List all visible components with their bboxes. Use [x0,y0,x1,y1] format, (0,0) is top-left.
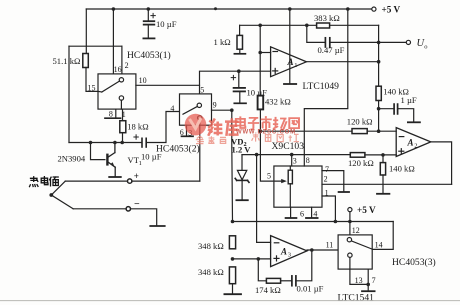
capacitor C1 10uF lead top [147,9,149,21]
transistor VT1 2N3904 [107,143,115,177]
svg-text:2N3904: 2N3904 [58,154,86,164]
wire pin7 U4 to ground [367,269,369,291]
svg-text:1 µF: 1 µF [401,95,417,105]
svg-text:15: 15 [88,83,96,92]
label thermocouple (drawn glyphs: re dian ou) [30,177,59,187]
svg-text:X9C103: X9C103 [272,141,305,152]
wire feedback top y25 [240,24,379,26]
svg-text:5: 5 [200,85,204,94]
wire U1 lower contact to pin1 [120,100,122,109]
wire left rail down from corner [85,9,87,53]
terminal +5V bottom [348,208,352,212]
node 1uF tap [377,107,381,111]
capacitor C1 10uF plates [144,21,155,24]
svg-text:348 kΩ: 348 kΩ [198,267,224,277]
svg-text:3: 3 [288,251,291,258]
wiper arrow pin5 [260,155,283,182]
svg-text:4: 4 [170,104,174,113]
node collector drop [113,141,117,145]
svg-text:51.1 kΩ: 51.1 kΩ [53,56,81,66]
resistor R 348k bottom [229,267,235,284]
wire pin1 to 18k [122,109,124,121]
terminal minus [126,207,130,211]
wire A1 power column [289,9,291,84]
node 0.47uF tap [305,24,309,28]
svg-text:383 kΩ: 383 kΩ [314,13,340,23]
resistor R 432k [258,96,264,110]
zener diode VD2 lead top [241,155,243,171]
wire 140k bottom to ground [382,175,384,193]
wire U2 lower contact down to thermocouple plus [199,120,201,181]
node A3 out [310,248,314,252]
watermark weiku text (wei ku drawn) [208,118,239,136]
wire pin2 horizontal y46 [69,45,122,47]
wire A3 minus column [257,155,271,243]
switch U4 upper contact [347,238,351,242]
wire +5V to pin12 [349,212,351,235]
wire U2 pin9 [212,109,232,111]
svg-text:7: 7 [372,276,376,285]
wire mid row y154 zener to 120k bottom [242,154,350,156]
pin 6 stub [290,207,292,217]
wire cap to A3 out [296,250,312,281]
op-amp A1 [271,47,307,77]
zener VD2 lead bottom [241,180,243,199]
ground bar pin8 U1 [105,117,121,119]
wire pin8 stub [115,109,117,118]
A3 feedback drop [258,259,266,281]
node rail-x148 [147,7,151,11]
wire minus to ground [131,209,157,226]
node A2 minus junction [377,129,381,133]
node divider mid [231,257,235,261]
wire +5V row y221 [233,221,394,223]
wire base path [91,143,105,160]
svg-text:432 kΩ: 432 kΩ [265,97,291,107]
pin 1 wire [322,196,335,222]
capacitor C5 plates [394,104,398,114]
wire pin14 loop [372,222,393,250]
svg-text:12: 12 [352,226,360,235]
svg-text:10: 10 [139,76,147,85]
op-amp A3 [271,236,307,267]
wire +5V top rail [86,8,371,10]
capacitor C1 lead bottom [147,25,149,39]
IC U3 X9C103 box [274,166,322,207]
node pin1 column [334,220,338,224]
svg-text:+5 V: +5 V [357,205,376,215]
svg-text:6: 6 [300,209,304,218]
pin 3 stub [291,155,293,166]
wire 1k drop [239,25,241,35]
wire 140k bottom [378,101,380,132]
svg-text:+: + [134,171,139,181]
wire U2 pin5 up and to A1+ [200,71,271,94]
svg-text:18 kΩ: 18 kΩ [127,122,148,132]
node pin9 junction [230,108,234,112]
svg-text:4: 4 [313,209,317,218]
wire left outer column x69 [68,46,70,142]
wire A1 output [306,61,378,63]
IC U1 HC4053(1) box [98,74,136,109]
terminal Uo [406,40,410,44]
node pin12 column [348,220,352,224]
IC U2 HC4053(2) box [180,94,212,125]
resistor R 120k top [352,129,367,134]
ground bar 140k [377,193,389,195]
svg-text:A: A [280,246,287,256]
node A3 plus feedback tap [257,257,261,261]
node Uo junction [377,41,381,45]
wire C4 to Uo node [330,41,407,43]
svg-text:LTC1541: LTC1541 [338,293,375,304]
thermal contact bar under VT1 emitter [109,176,121,178]
ground bar 1k [234,53,245,55]
node 120k tap [259,129,263,133]
wire 18k bottom [122,133,124,143]
capacitor C5 1uF branch [379,108,394,110]
svg-text:LTC1049: LTC1049 [303,81,340,92]
zener VD2 symbol [237,170,246,179]
resistor R 383k [317,23,330,28]
thermocouple junction [49,193,53,197]
wire 120k bottom to A2 plus [365,154,396,156]
terminal plus [128,179,132,183]
switch U2 lower contact [198,116,202,120]
wire +5V drop to X9C103 pin8 [304,9,348,166]
wire C5 to ground [398,109,414,122]
capacitor C2 plus [231,75,235,79]
wire A3 plus row [233,258,271,260]
svg-text:2: 2 [125,61,129,70]
switch U1 lower contact [119,96,123,100]
ground bar C5 [408,121,420,123]
wire 51.1k bottom to pin15 [86,68,98,92]
svg-text:7: 7 [325,165,329,174]
A3 minus marker [274,242,279,244]
ground bar pin6 [286,217,297,219]
wire collector node y142 [69,142,142,144]
wire 1k bottom [239,49,241,53]
ground bar A1 [284,83,296,85]
ground bar pin4 [306,217,318,219]
ground bar 348k [224,293,241,295]
svg-text:14: 14 [375,240,383,249]
svg-text:0.01 µF: 0.01 µF [297,284,324,294]
node base drop [89,141,93,145]
wire pin15 stub inside [98,90,102,93]
ground bar C2 [234,102,246,104]
node pin13-7 [366,283,370,287]
node rail-x348 [346,7,350,11]
wire pin2 vertical [121,46,123,74]
svg-text:o: o [424,44,427,51]
svg-text:348 kΩ: 348 kΩ [198,241,224,251]
svg-text:A: A [407,137,414,147]
IC U4 HC4053(3) box [338,235,372,269]
svg-text:8: 8 [109,110,113,119]
resistor R 174k [266,278,280,283]
node feedback x260 [258,24,262,28]
resistor R 1k [237,35,243,49]
svg-text:0.47 µF: 0.47 µF [318,45,345,55]
capacitor C2 lead bottom [239,91,241,103]
node A1 out [377,60,381,64]
node 140k bottom tap [381,153,385,157]
wire A1 minus column [259,25,261,95]
svg-text:2: 2 [414,142,417,149]
wire thermocouple plus [65,180,127,182]
pin 2 wire from A2 output [322,183,452,185]
wire A1 minus input [260,52,270,54]
svg-text:HC4053(1): HC4053(1) [127,50,171,61]
svg-text:174 kΩ: 174 kΩ [255,285,281,295]
svg-text:13: 13 [355,276,363,285]
svg-text:120 kΩ: 120 kΩ [348,158,374,168]
wire feedback right column [378,25,380,86]
node 18k-collector [120,141,124,145]
wire 348k to ground [232,284,234,294]
resistor R 51.1k [83,54,89,68]
wire 120k to A2 minus [367,130,396,132]
switch U4 arm [351,241,371,249]
switch U4 lower contact [348,253,352,257]
ground bar pin7 [339,191,349,193]
scan artifact line bottom [0,300,460,302]
svg-text:140 kΩ: 140 kΩ [389,163,415,173]
svg-text:9: 9 [213,101,217,110]
svg-text:3: 3 [293,157,297,166]
svg-text:120 kΩ: 120 kΩ [347,117,373,127]
capacitor C2 10uF lead [238,71,240,87]
ground bar VD2 [236,199,247,201]
svg-text:16: 16 [114,65,122,74]
A3 plus marker [274,256,279,261]
svg-text:+5 V: +5 V [382,4,401,14]
A1 plus marker [273,68,278,73]
wire U2 pins 6-3 stub [186,125,188,136]
wire pin9 column x232 [231,110,234,221]
capacitor C6 0.01uF plates [292,276,296,286]
switch U2 upper contact [197,103,201,107]
wire thermocouple minus [73,208,126,210]
resistor R 348k top [229,236,235,249]
node rail-x215 [214,7,217,10]
wire pin13 [350,269,368,284]
svg-text:2: 2 [324,174,328,183]
svg-text:HC4053(2): HC4053(2) [156,143,200,154]
wire C3 to pin4 [146,112,179,143]
node A1+ cap junction [237,69,241,73]
wire A2 output loop to pin2 [431,142,452,184]
svg-text:11: 11 [326,241,334,250]
wire 120k top left run [260,130,352,132]
node rail-x290 [288,7,292,11]
pin 4 stub [311,207,313,217]
wire pin16 from rail [112,9,114,74]
svg-text:1 kΩ: 1 kΩ [214,37,231,47]
svg-text:HC4053(3): HC4053(3) [392,257,436,268]
switch U1 arm [102,81,120,92]
A2 minus marker [399,136,404,138]
A1 minus marker [273,51,278,53]
node 348k top [231,220,235,224]
switch U1 upper contact [119,78,123,82]
watermark slogan left (quan qiu zui da drawn) [196,136,226,144]
capacitor C4 0.47uF branch [307,25,325,42]
svg-text:1: 1 [294,62,297,69]
wire 432k bottom column [259,109,261,154]
switch U2 arm [183,107,197,115]
wire 174k to cap [281,280,292,282]
node rail-x113 [112,7,116,11]
wire plus to U2 [132,180,200,182]
capacitor C3 10uF plates [142,138,146,147]
wire A3 output to pin11 [307,249,338,251]
svg-text:1.2 V: 1.2 V [232,144,252,154]
A2 plus marker [399,149,404,154]
pin 7 wire to ground [322,171,344,192]
terminal +5V top [372,7,376,11]
svg-text:8: 8 [306,156,310,165]
watermark weiku logo [185,114,299,144]
op-amp A2 [396,128,431,157]
capacitor C1 plus sign [151,13,155,17]
resistor R 18k [120,121,126,133]
resistor R 120k bottom [350,153,365,158]
capacitor C3 10uF plus [134,135,138,139]
svg-text:10 µF: 10 µF [156,19,177,29]
svg-text:1: 1 [325,188,329,197]
ground under C1 [143,37,154,39]
resistor R 140k bottom [382,155,384,163]
potentiometer inside X9C103 [289,166,291,170]
ground bar U2 pins 6-3 [182,135,194,137]
capacitor C2 10uF plates [234,88,245,92]
svg-text:5: 5 [267,171,271,180]
thermocouple leads [51,181,65,195]
capacitor C4 plates [325,38,329,47]
watermark dianzishichangwang (dian zi shi chang wang drawn) [236,116,299,130]
wire U1 pin10 to pin5 column [136,84,200,86]
resistor R 140k top [376,86,381,100]
node pin3 top [290,153,294,157]
node A1 minus tap [258,51,262,55]
ground bar U4 [362,290,375,292]
node A3 column top [255,153,259,157]
wire U4 lower contact to pin13 [349,257,351,269]
ground bar minus [150,225,164,227]
watermark slogan right (cai gou wang zhan drawn) [252,134,299,142]
